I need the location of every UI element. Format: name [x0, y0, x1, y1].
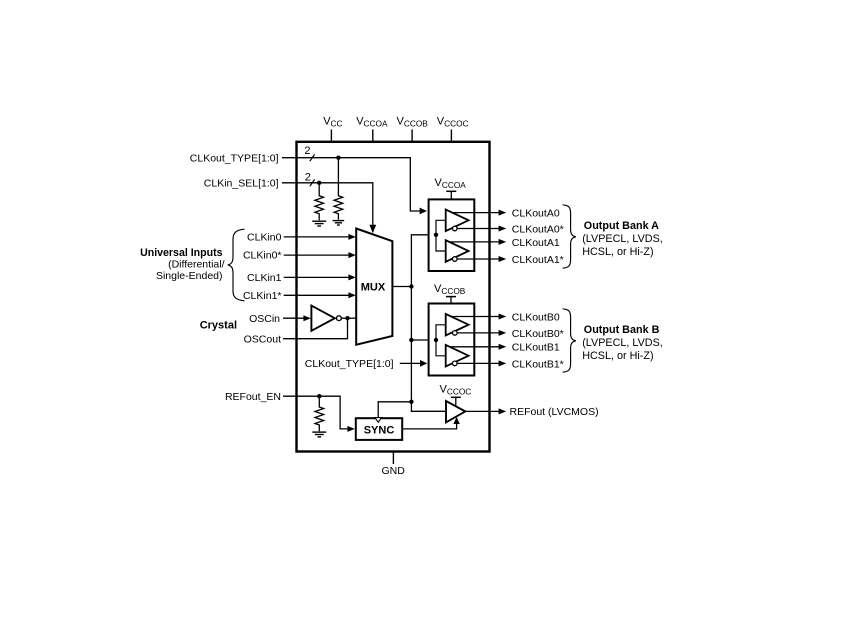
oscillator buffer X1: [311, 306, 341, 331]
label Output Bank B: [582, 324, 663, 362]
wire OSCout feedback: [283, 318, 348, 339]
wire CLKoutA0: [452, 210, 506, 216]
buffer A0: [446, 210, 469, 232]
svg-text:Universal Inputs: Universal Inputs: [140, 247, 223, 259]
svg-text:REFout_EN: REFout_EN: [225, 391, 281, 403]
svg-text:CLKin_SEL[1:0]: CLKin_SEL[1:0]: [204, 177, 279, 189]
label Universal Inputs: [140, 247, 224, 282]
wire SYNC output to REFout buffer enable: [402, 417, 460, 429]
svg-text:OSCout: OSCout: [244, 333, 281, 345]
svg-text:(Differential/: (Differential/: [168, 259, 224, 271]
wire oscillator buffer output to MUX: [341, 317, 356, 319]
wire CLKoutB0*: [457, 330, 506, 336]
svg-text:CLKin1*: CLKin1*: [243, 290, 282, 302]
wire CLKoutA1*: [457, 256, 506, 262]
wire CLKin0* to MUX: [284, 252, 356, 258]
ground (R2): [333, 221, 345, 225]
output bank A block: [429, 199, 475, 271]
wire CLKoutB1*: [457, 360, 506, 366]
brace Bank B: [563, 309, 576, 372]
node on REFout_EN wire: [317, 394, 321, 398]
pin VCCOB (top): [397, 115, 429, 142]
bubble B1*: [453, 361, 458, 366]
wire CLKoutA0*: [457, 226, 506, 232]
wire down to REFout buffer: [411, 340, 446, 411]
pin label CLKout_TYPE[1:0]: [190, 152, 279, 164]
power tap VCCOA on Bank A: [435, 177, 467, 199]
pin labels Bank B outputs: [512, 311, 564, 370]
svg-text:Single-Ended): Single-Ended): [156, 270, 223, 282]
bubble A0*: [453, 226, 458, 231]
node on CLKin_SEL wire: [317, 181, 321, 185]
node Bank B input: [434, 338, 438, 342]
wire CLKout_TYPE to Bank B: [400, 360, 428, 367]
svg-text:CLKoutB1: CLKoutB1: [512, 342, 560, 354]
svg-text:Output Bank A: Output Bank A: [584, 220, 659, 232]
svg-text:CLKin0*: CLKin0*: [243, 250, 282, 262]
pin VCCOA (top): [356, 115, 388, 142]
power tap VCCOB on Bank B: [434, 283, 466, 304]
wire CLKoutB1: [450, 344, 507, 350]
power tap VCCOC on REFout buffer: [440, 384, 472, 407]
chip outline U1: [297, 142, 490, 452]
svg-text:CLKin1: CLKin1: [247, 272, 282, 284]
node OSC output: [345, 316, 349, 320]
node at Bank B branch: [409, 338, 413, 342]
node on CLKout_TYPE wire: [336, 156, 340, 160]
wire CLKin_SEL[1:0] to MUX select: [282, 183, 376, 233]
svg-text:CLKoutA1*: CLKoutA1*: [512, 254, 564, 266]
resistor R2 (pull-down on CLKout_TYPE): [334, 158, 343, 220]
pin GND: [382, 452, 406, 477]
svg-text:HCSL, or Hi-Z): HCSL, or Hi-Z): [582, 246, 653, 258]
svg-text:2: 2: [304, 145, 310, 157]
brace grouping universal inputs: [228, 229, 245, 301]
svg-text:CLKoutB0: CLKoutB0: [512, 311, 560, 323]
svg-text:GND: GND: [382, 465, 406, 477]
wire MUX output: [392, 286, 411, 288]
svg-text:Crystal: Crystal: [200, 320, 237, 332]
wire CLKoutA1: [449, 239, 506, 245]
resistor R1 (pull-down on CLKin_SEL): [315, 183, 324, 220]
node at SYNC branch: [409, 400, 413, 404]
node Bank A input: [434, 233, 438, 237]
wire CLKin1 to MUX: [284, 274, 356, 280]
svg-text:2: 2: [305, 172, 311, 184]
svg-text:Output Bank B: Output Bank B: [584, 324, 660, 336]
sync block U3: [356, 418, 402, 440]
bus width marker 2 (CLKin_SEL): [305, 172, 315, 187]
wire to SYNC clock input: [378, 402, 411, 417]
bubble A1*: [453, 257, 458, 262]
mux U2: [356, 229, 392, 345]
svg-text:SYNC: SYNC: [364, 424, 395, 436]
pin label CLKin_SEL[1:0]: [204, 177, 279, 189]
svg-text:CLKoutB1*: CLKoutB1*: [512, 358, 564, 370]
node MUX output: [409, 284, 413, 288]
bubble B0*: [453, 331, 458, 336]
open arrowhead into SYNC top: [375, 418, 382, 423]
ground (R3): [312, 432, 326, 437]
svg-text:(LVPECL, LVDS,: (LVPECL, LVDS,: [582, 233, 663, 245]
svg-text:CLKoutA1: CLKoutA1: [512, 237, 560, 249]
buffer B0: [446, 314, 469, 336]
svg-text:REFout (LVCMOS): REFout (LVCMOS): [510, 406, 599, 418]
svg-text:MUX: MUX: [361, 282, 386, 294]
wire CLKoutB0: [451, 314, 506, 320]
svg-text:CLKoutA0*: CLKoutA0*: [512, 223, 564, 235]
refout buffer X2: [446, 401, 465, 422]
svg-text:CLKout_TYPE[1:0]: CLKout_TYPE[1:0]: [190, 152, 279, 164]
wire CLKin1* to MUX: [284, 292, 356, 298]
buffer A1: [446, 240, 469, 262]
wire OSCin to oscillator buffer: [283, 315, 311, 321]
wire REFout_EN to SYNC: [283, 396, 355, 432]
svg-text:OSCin: OSCin: [249, 313, 280, 325]
bus width marker 2 (CLKout_TYPE): [304, 145, 314, 161]
svg-text:CLKout_TYPE[1:0]: CLKout_TYPE[1:0]: [305, 358, 394, 370]
wire MUX output down to Bank B input: [411, 287, 436, 341]
wire Bank A input distribution: [436, 220, 446, 251]
pin labels Bank A outputs: [512, 208, 564, 266]
wire MUX output to Bank A input: [411, 235, 436, 287]
pin VCCOC (top): [437, 115, 469, 142]
svg-text:CLKoutB0*: CLKoutB0*: [512, 328, 564, 340]
buffer B1: [446, 345, 469, 367]
output bank B block: [429, 304, 475, 376]
label Output Bank A: [582, 220, 663, 258]
svg-text:CLKin0: CLKin0: [247, 232, 282, 244]
svg-text:HCSL, or Hi-Z): HCSL, or Hi-Z): [582, 350, 653, 362]
ground (R1): [312, 221, 326, 226]
resistor R3 (pull-down on REFout_EN): [315, 396, 324, 431]
svg-text:CLKoutA0: CLKoutA0: [512, 208, 560, 220]
brace Bank A: [563, 205, 576, 268]
wire CLKout_TYPE[1:0] to Bank A: [282, 158, 427, 215]
wire CLKin0 to MUX: [284, 234, 356, 240]
pin VCC: [323, 115, 342, 142]
wire REFout: [465, 408, 506, 414]
wire Bank B input distribution: [436, 325, 446, 356]
svg-text:(LVPECL, LVDS,: (LVPECL, LVDS,: [582, 337, 663, 349]
